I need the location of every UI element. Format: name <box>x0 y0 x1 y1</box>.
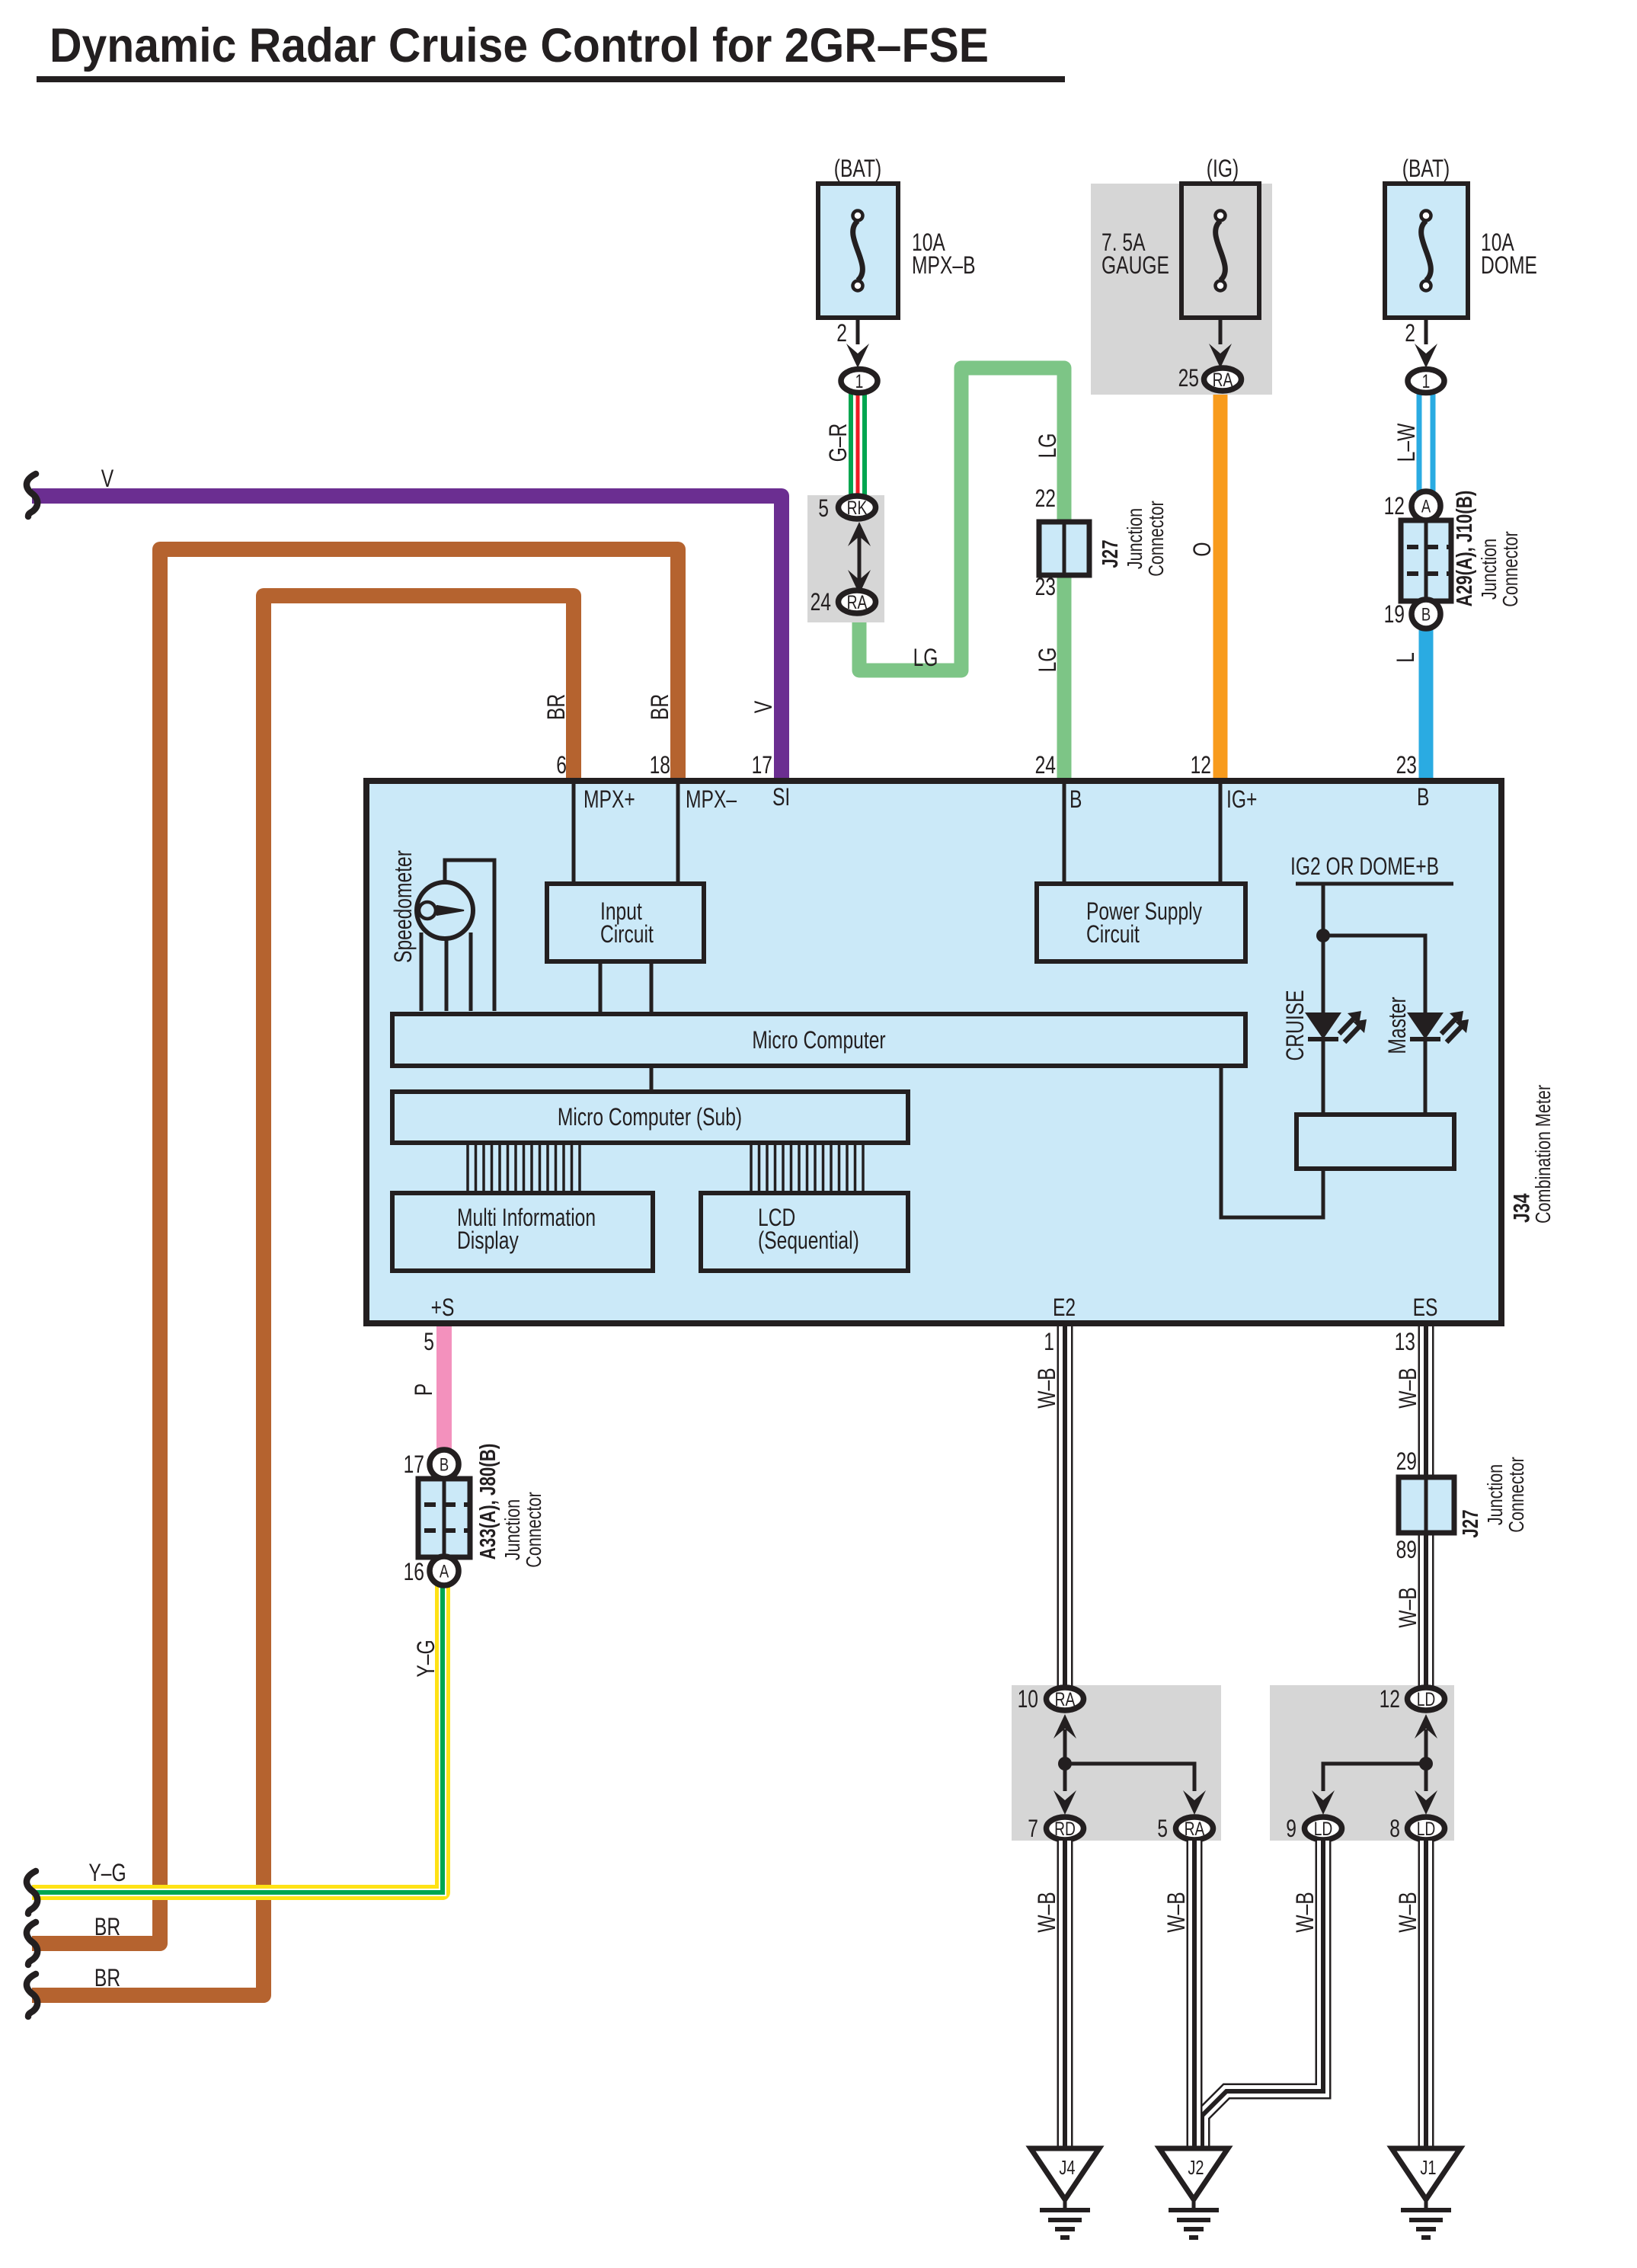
svg-text:W–B: W–B <box>1034 1892 1061 1932</box>
svg-text:DOME: DOME <box>1481 252 1537 280</box>
wire W-B from LD 9 to ground J2 (jog) <box>1202 1841 1323 2150</box>
svg-text:W–B: W–B <box>1292 1892 1319 1932</box>
connector LD 12 <box>1408 1687 1445 1710</box>
wire micro computer to sub <box>650 1066 654 1092</box>
svg-text:12: 12 <box>1384 493 1405 520</box>
junction terminal A <box>1412 491 1440 520</box>
svg-text:13: 13 <box>1395 1329 1415 1356</box>
svg-text:ES: ES <box>1413 1294 1438 1322</box>
wire LED box to micro computer <box>1221 1066 1323 1217</box>
svg-text:Connector: Connector <box>1504 1457 1528 1532</box>
svg-text:Circuit: Circuit <box>1086 921 1140 948</box>
svg-text:(BAT): (BAT) <box>834 155 881 183</box>
connector RA <box>839 590 876 613</box>
svg-text:2: 2 <box>836 320 847 347</box>
wire MPX- to input circuit <box>676 784 680 884</box>
multi information display box <box>392 1193 653 1271</box>
svg-text:Junction: Junction <box>1477 539 1501 600</box>
svg-text:Micro Computer (Sub): Micro Computer (Sub) <box>558 1104 742 1131</box>
svg-text:24: 24 <box>1035 752 1057 779</box>
svg-text:B: B <box>440 1454 449 1475</box>
wire W-B from LD 8 to ground J1 <box>1418 1841 1434 2150</box>
speedometer circle <box>417 882 473 939</box>
svg-text:(Sequential): (Sequential) <box>758 1227 859 1255</box>
svg-text:IG2 OR DOME+B: IG2 OR DOME+B <box>1290 853 1439 881</box>
svg-text:Combination Meter: Combination Meter <box>1531 1085 1555 1224</box>
svg-text:BR: BR <box>94 1914 120 1941</box>
fuse 10A MPX-B <box>818 184 898 318</box>
svg-text:W–B: W–B <box>1395 1892 1422 1932</box>
svg-text:L–W: L–W <box>1393 424 1421 462</box>
junction connector J27 (bottom) <box>1399 1477 1454 1533</box>
svg-text:Connector: Connector <box>1498 531 1522 606</box>
svg-text:LG: LG <box>1034 648 1062 673</box>
svg-text:Display: Display <box>457 1227 519 1255</box>
wire fuse GAUGE to RA <box>1219 318 1223 344</box>
svg-text:17: 17 <box>404 1451 424 1479</box>
svg-text:V: V <box>101 465 114 493</box>
svg-text:P: P <box>411 1384 438 1396</box>
speedometer wire loop <box>445 860 494 1011</box>
LCD (Sequential) box <box>701 1193 908 1271</box>
gray connector box (LD/LD/LD) <box>1270 1685 1454 1841</box>
svg-text:LG: LG <box>1034 433 1062 459</box>
wire MPX+ to input circuit <box>572 784 576 884</box>
wire W-B from E2 to RA 10 <box>1057 1326 1073 1687</box>
svg-text:16: 16 <box>404 1559 424 1586</box>
svg-text:A: A <box>440 1561 449 1582</box>
junction dot (RA/RD) <box>1058 1757 1072 1771</box>
connector LD 8 <box>1408 1817 1445 1840</box>
svg-text:Speedometer: Speedometer <box>390 850 417 963</box>
svg-text:CRUISE: CRUISE <box>1282 990 1309 1060</box>
wire to LD 9 <box>1323 1764 1426 1791</box>
arrow into RA 25 <box>1209 344 1232 368</box>
svg-text:(BAT): (BAT) <box>1402 155 1450 183</box>
svg-text:9: 9 <box>1286 1815 1296 1843</box>
svg-text:5: 5 <box>424 1329 434 1356</box>
connector RA (IG) <box>1204 368 1242 391</box>
fuse 10A DOME <box>1385 184 1468 318</box>
shield connector gray box (RK/RA) <box>807 495 884 622</box>
svg-text:LD: LD <box>1417 1688 1436 1710</box>
svg-text:7: 7 <box>1028 1815 1038 1843</box>
wire branch to Master <box>1323 936 1425 1012</box>
wire B to power supply <box>1063 784 1066 884</box>
bus hatching to LCD <box>751 1143 863 1193</box>
svg-text:1: 1 <box>1422 370 1431 392</box>
wire IG+ to power supply <box>1219 784 1223 884</box>
svg-text:LG: LG <box>913 645 938 672</box>
arrow up to RA 10 <box>1053 1714 1076 1739</box>
svg-text:O: O <box>1189 542 1217 556</box>
gray box around GAUGE fuse <box>1091 184 1272 395</box>
junction connector A33(A), J80(B) <box>418 1479 470 1557</box>
connector 1 (MPX-B) <box>841 369 878 393</box>
svg-text:RD: RD <box>1054 1818 1076 1839</box>
wire G-R (green-red) from fuse to connector RK <box>849 392 853 497</box>
svg-text:A: A <box>1421 496 1431 517</box>
svg-text:LD: LD <box>1314 1818 1333 1839</box>
svg-text:W–B: W–B <box>1034 1368 1061 1408</box>
svg-text:10: 10 <box>1018 1686 1038 1713</box>
svg-text:BR: BR <box>543 694 571 720</box>
wire W-B from RA 5 to ground J2 <box>1187 1841 1203 2150</box>
ground J2 <box>1159 2148 1228 2199</box>
svg-text:1: 1 <box>855 370 864 392</box>
title underline <box>37 76 1065 82</box>
wires input circuit to micro computer <box>599 961 603 1014</box>
svg-text:19: 19 <box>1384 601 1405 629</box>
svg-text:IG+: IG+ <box>1226 786 1257 814</box>
svg-text:E2: E2 <box>1053 1294 1076 1322</box>
svg-text:LD: LD <box>1417 1818 1436 1839</box>
micro computer box <box>392 1014 1245 1066</box>
svg-text:5: 5 <box>1157 1815 1168 1843</box>
wire BR (brown, inner) to MPX+ pin 6 <box>32 596 574 1995</box>
svg-text:W–B: W–B <box>1395 1587 1422 1627</box>
wire L-W (blue-white) from DOME fuse to junction A <box>1417 392 1422 494</box>
svg-text:2: 2 <box>1405 320 1415 347</box>
speedometer needle <box>419 902 436 919</box>
LED driver box <box>1296 1115 1454 1169</box>
svg-text:J4: J4 <box>1059 2157 1075 2179</box>
svg-text:J1: J1 <box>1420 2157 1436 2179</box>
svg-text:J27: J27 <box>1459 1509 1482 1537</box>
wire from IG2 bus to junction <box>1322 884 1325 1012</box>
svg-text:23: 23 <box>1035 574 1056 601</box>
svg-text:12: 12 <box>1191 752 1211 779</box>
svg-text:(IG): (IG) <box>1207 155 1239 183</box>
svg-text:A33(A), J80(B): A33(A), J80(B) <box>476 1444 500 1560</box>
svg-text:BR: BR <box>94 1965 120 1992</box>
svg-text:Junction: Junction <box>1483 1464 1507 1525</box>
connector LD 9 <box>1305 1817 1342 1840</box>
arrow down to LD 9 <box>1312 1790 1335 1815</box>
svg-text:MPX–: MPX– <box>686 786 737 814</box>
connector RD 7 <box>1047 1817 1084 1840</box>
wire O (orange) from RA 25 to IG+ pin 12 <box>1213 389 1228 785</box>
svg-text:18: 18 <box>650 752 670 779</box>
wire to RA 5 <box>1065 1764 1194 1791</box>
arrow up to LD 12 <box>1415 1714 1437 1739</box>
svg-text:MPX+: MPX+ <box>584 786 635 814</box>
junction dot (LD) <box>1419 1757 1433 1771</box>
svg-text:1: 1 <box>1044 1329 1054 1356</box>
svg-text:22: 22 <box>1035 485 1056 513</box>
wire Y-G (yellow-green) from break to junction A <box>32 1571 443 1892</box>
svg-text:25: 25 <box>1178 365 1199 392</box>
svg-text:Dynamic Radar Cruise Control f: Dynamic Radar Cruise Control for 2GR–FSE <box>50 19 989 72</box>
svg-text:RA: RA <box>1185 1818 1205 1839</box>
svg-text:6: 6 <box>556 752 567 779</box>
gray connector box (RA/RD/RA) <box>1012 1685 1221 1841</box>
svg-text:BR: BR <box>647 694 674 720</box>
svg-text:RA: RA <box>847 591 868 613</box>
svg-text:23: 23 <box>1396 752 1417 779</box>
junction terminal A (A33) <box>430 1556 459 1585</box>
break symbol on Y-G wire <box>27 1871 37 1914</box>
svg-text:A29(A), J10(B): A29(A), J10(B) <box>1453 491 1476 607</box>
svg-text:L: L <box>1392 652 1420 663</box>
ground J4 <box>1031 2148 1099 2199</box>
svg-text:SI: SI <box>772 784 790 811</box>
fuse 7.5A GAUGE <box>1181 184 1259 318</box>
connector RA 5 <box>1176 1817 1213 1840</box>
arrow into connector 1 <box>846 344 869 368</box>
combination meter J34 box <box>366 781 1501 1323</box>
wire W-B from ES to LD 12 <box>1418 1326 1434 1687</box>
connector RA 10 <box>1047 1687 1084 1710</box>
svg-text:B: B <box>1417 784 1429 811</box>
svg-text:5: 5 <box>818 495 829 523</box>
svg-text:17: 17 <box>752 752 772 779</box>
double arrow RK-RA <box>858 533 862 583</box>
svg-text:Micro Computer: Micro Computer <box>752 1027 886 1054</box>
micro computer (sub) box <box>392 1092 908 1143</box>
wire fuse DOME to connector 1 <box>1424 318 1428 344</box>
svg-text:89: 89 <box>1396 1537 1417 1564</box>
wire BR (brown, outer) to MPX- pin 18 <box>32 549 678 1943</box>
svg-text:W–B: W–B <box>1395 1368 1422 1408</box>
svg-text:J2: J2 <box>1188 2157 1204 2179</box>
svg-text:Junction: Junction <box>500 1499 524 1560</box>
svg-text:G–R: G–R <box>825 424 852 462</box>
arrow down to RA 5 <box>1183 1790 1206 1815</box>
svg-text:Master: Master <box>1384 996 1412 1054</box>
junction connector J27 (top) <box>1039 522 1089 575</box>
connector RK <box>839 496 876 519</box>
svg-text:B: B <box>1069 786 1082 814</box>
svg-text:12: 12 <box>1380 1686 1400 1713</box>
break symbol on BR outer wire <box>27 1922 37 1965</box>
junction connector A29(A), J10(B) <box>1401 520 1451 601</box>
svg-text:RK: RK <box>847 497 868 518</box>
wire LG (light green) from connector RA to pin 24 B <box>859 368 1064 785</box>
svg-text:MPX–B: MPX–B <box>912 252 976 280</box>
power supply circuit box <box>1037 884 1245 961</box>
svg-text:Junction: Junction <box>1123 508 1146 569</box>
svg-text:Connector: Connector <box>1144 501 1168 576</box>
arrow down to RD 7 <box>1053 1790 1076 1815</box>
arrow down to LD 8 <box>1415 1790 1437 1815</box>
arrow into connector 1 (DOME) <box>1415 344 1437 368</box>
svg-text:Y–G: Y–G <box>88 1860 126 1887</box>
junction terminal B <box>1412 600 1440 629</box>
wire fuse MPX-B to connector 1 <box>856 318 860 344</box>
wire W-B from RD 7 to ground J4 <box>1057 1841 1073 2150</box>
ground J1 <box>1392 2148 1460 2199</box>
svg-text:Y–G: Y–G <box>413 1639 440 1677</box>
wire V (violet) to SI pin 17 <box>32 496 782 785</box>
svg-text:24: 24 <box>811 589 832 616</box>
svg-text:RA: RA <box>1055 1688 1076 1710</box>
wire L (blue) from junction B to pin 23 B <box>1419 625 1434 785</box>
svg-text:J27: J27 <box>1098 539 1122 568</box>
svg-text:B: B <box>1421 604 1431 625</box>
svg-text:Connector: Connector <box>522 1492 545 1567</box>
junction dot <box>1316 929 1330 942</box>
svg-text:W–B: W–B <box>1163 1892 1191 1932</box>
connector 1 (DOME) <box>1408 369 1444 393</box>
speedometer wires to micro computer <box>420 932 424 1011</box>
bus hatching to multi information display <box>468 1143 580 1193</box>
svg-text:8: 8 <box>1389 1815 1400 1843</box>
svg-text:V: V <box>750 701 778 713</box>
input circuit box <box>547 884 704 961</box>
wire P (pink) from +S pin 5 to junction B <box>436 1323 452 1455</box>
svg-text:Circuit: Circuit <box>600 921 654 948</box>
svg-text:RA: RA <box>1213 369 1233 390</box>
break symbol on BR inner wire <box>27 1974 37 2017</box>
svg-text:GAUGE: GAUGE <box>1101 252 1169 280</box>
svg-text:+S: +S <box>431 1294 455 1322</box>
svg-text:29: 29 <box>1396 1448 1417 1476</box>
junction terminal B (A33) <box>430 1450 459 1479</box>
break symbol on V wire <box>27 474 37 517</box>
